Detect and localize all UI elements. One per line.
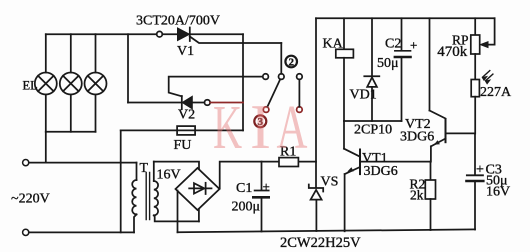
svg-text:16V: 16V: [157, 168, 181, 183]
svg-text:FU: FU: [174, 138, 192, 153]
svg-text:EL: EL: [23, 79, 38, 93]
svg-text:V1: V1: [177, 44, 194, 59]
svg-text:KA: KA: [323, 37, 344, 52]
svg-text:VS: VS: [321, 175, 339, 190]
svg-text:3CT20A/700V: 3CT20A/700V: [136, 14, 220, 29]
svg-text:T: T: [140, 161, 149, 176]
svg-text:470k: 470k: [437, 44, 468, 60]
svg-text:+: +: [263, 179, 270, 194]
svg-text:VD1: VD1: [350, 88, 377, 103]
svg-text:16V: 16V: [486, 185, 510, 200]
svg-text:2k: 2k: [410, 188, 424, 203]
svg-text:200μ: 200μ: [232, 200, 261, 215]
svg-text:2CW22H25V: 2CW22H25V: [280, 235, 361, 251]
svg-text:C1: C1: [236, 181, 252, 196]
svg-text:2: 2: [288, 56, 294, 68]
svg-text:2CP10: 2CP10: [354, 123, 392, 138]
svg-text:+: +: [410, 38, 417, 53]
svg-text:50μ: 50μ: [377, 56, 399, 71]
svg-text:227A: 227A: [480, 85, 512, 100]
svg-text:V2: V2: [178, 108, 195, 123]
svg-text:C2: C2: [385, 37, 401, 52]
svg-text:~220V: ~220V: [11, 192, 50, 207]
svg-text:+: +: [476, 163, 484, 178]
svg-text:I: I: [250, 92, 271, 162]
svg-text:A: A: [277, 92, 308, 162]
svg-text:3DG6: 3DG6: [400, 130, 434, 145]
svg-text:3DG6: 3DG6: [364, 164, 398, 179]
svg-text:K: K: [213, 93, 242, 162]
